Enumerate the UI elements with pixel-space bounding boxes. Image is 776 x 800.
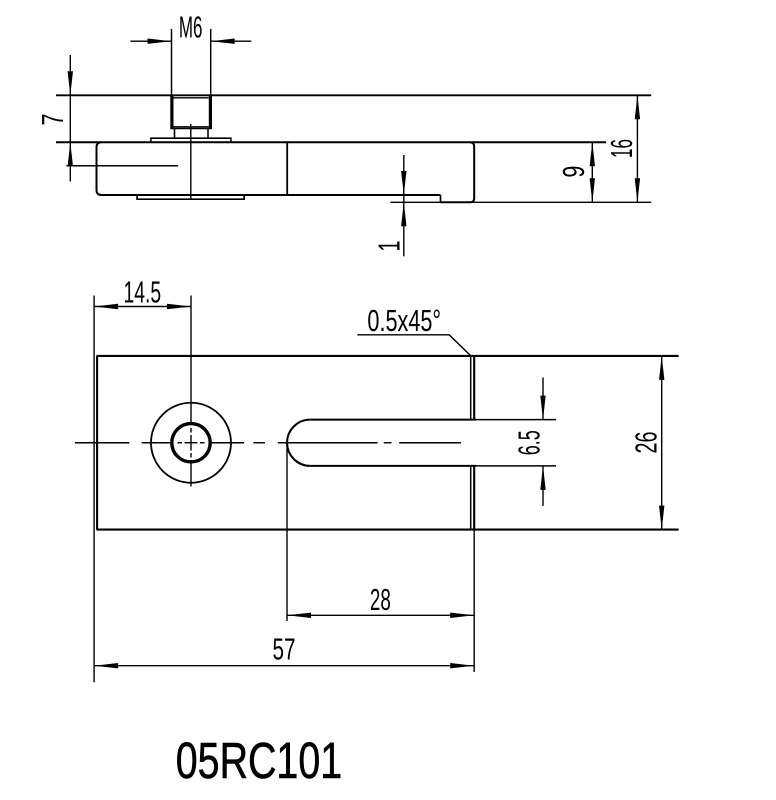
plate right edge with fillets (side view) (470, 142, 474, 202)
slot top line + 6.5 extension (310, 419, 476, 421)
step at right pad (440, 195, 442, 202)
wire plate top line / 7-dim + 9-dim extension (56, 141, 606, 143)
wire top line of stud plane / 16-dim extension (56, 94, 651, 96)
clinch collar pad under stud (137, 195, 244, 199)
dimension 26 line (659, 356, 664, 530)
dimension M6 line with outside arrows (130, 39, 251, 44)
dimension M6 extension lines (172, 29, 211, 95)
svg-text:0.5x45°: 0.5x45° (367, 303, 441, 338)
extension line slot tip down (286, 443, 288, 621)
svg-text:14.5: 14.5 (124, 275, 162, 310)
dimension 1 line with outside arrows (401, 155, 406, 256)
dimension 28 line (287, 613, 474, 618)
svg-text:28: 28 (370, 582, 391, 617)
hole outer circle (flange dia) (151, 403, 231, 483)
stud neck (175, 129, 209, 139)
slot left arc (287, 420, 310, 466)
slot bottom line + 6.5 extension (310, 465, 476, 467)
node mid reference line (66, 165, 178, 167)
plate bottom line (side view) (102, 194, 441, 196)
svg-text:05RC101: 05RC101 (176, 732, 342, 789)
dimension 6.5 lines (540, 378, 545, 506)
hole inner thick circle (M6 stud) (172, 424, 210, 462)
slot end divider line (side view) (286, 142, 288, 195)
plate right outer edge (interrupted by slot) (473, 356, 475, 530)
svg-text:26: 26 (629, 432, 664, 454)
svg-text:1: 1 (372, 241, 407, 252)
left extension line for 14.5 / 57 (93, 296, 95, 683)
stud centerline (190, 124, 192, 200)
plate bottom edge + 26 extension (97, 529, 679, 531)
plate top edge + 26 extension (97, 355, 679, 357)
dimension 16 line (635, 95, 640, 202)
plate body left edge with fillets (side view) (97, 142, 102, 195)
svg-text:M6: M6 (179, 10, 203, 45)
svg-text:7: 7 (35, 114, 70, 126)
svg-text:57: 57 (273, 632, 296, 667)
right pad bottom (441, 201, 471, 203)
dimension 9 line (590, 142, 595, 202)
long horizontal centerline left of hole (75, 442, 171, 444)
svg-text:9: 9 (556, 166, 591, 178)
plate left edge (96, 356, 98, 530)
stud thread inner lines (174, 98, 209, 127)
chamfer line at right edge (470, 356, 472, 530)
svg-text:6.5: 6.5 (512, 430, 547, 455)
extension line right edge down (473, 530, 475, 672)
dimension 57 line (94, 663, 474, 668)
hole vertical centerline + 14.5 extension (190, 296, 192, 487)
dimension 7 line (68, 55, 73, 182)
bottom extension line for 1 / 9 / 16 dims (390, 201, 651, 203)
stud flange (150, 138, 231, 142)
chamfer leader 0.5x45 (357, 335, 470, 356)
svg-text:16: 16 (604, 139, 639, 158)
long horizontal centerline right of hole through slot (212, 442, 462, 444)
centerline dashes inside hole (178, 442, 205, 444)
stud thread outer thick side lines (170, 95, 212, 128)
dimension 14.5 line (94, 304, 191, 309)
